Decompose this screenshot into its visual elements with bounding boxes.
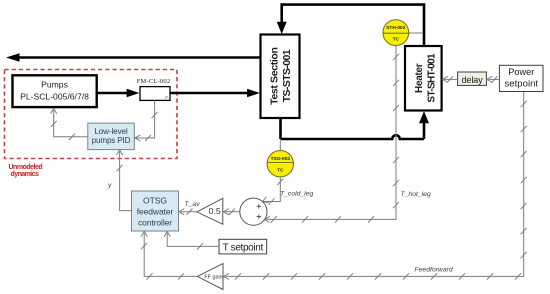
svg-text:Unmodeled: Unmodeled [9, 164, 43, 171]
svg-text:STH-002: STH-002 [386, 25, 406, 31]
svg-text:feedwater: feedwater [137, 206, 174, 216]
wire T_cold_leg from TSO-002 to summer [261, 177, 283, 205]
svg-text:T_hot_leg: T_hot_leg [401, 191, 431, 198]
pumps PL-SCL-005/6/7/8 [13, 75, 97, 107]
gain 0.5 [197, 198, 223, 224]
OTSG feedwater controller [132, 191, 179, 231]
wire power setpoint to delay [487, 76, 500, 82]
svg-text:FM-CL-002: FM-CL-002 [137, 78, 171, 85]
svg-text:pumps PID: pumps PID [92, 136, 131, 145]
wire T_av to OTSG controller [179, 209, 197, 215]
sensor TSO-002 TC [267, 140, 293, 177]
svg-text:y: y [107, 182, 112, 189]
power setpoint box [499, 65, 543, 91]
wire FF gain to OTSG [141, 231, 197, 279]
svg-text:T_av: T_av [185, 201, 201, 208]
gain FF gain [197, 264, 223, 290]
svg-text:dynamics: dynamics [11, 171, 40, 178]
wire flowmeter to test section [170, 89, 260, 98]
svg-text:Power: Power [508, 67, 534, 77]
svg-text:TSO-002: TSO-002 [271, 156, 291, 162]
svg-text:PL-SCL-005/6/7/8: PL-SCL-005/6/7/8 [20, 91, 89, 101]
wire y from OTSG to low-level PID [117, 150, 132, 211]
pipe: test section top loop from heater [277, 5, 424, 46]
unmodeled dynamics dashed boundary [5, 70, 178, 159]
wire T setpoint to OTSG [164, 231, 219, 249]
svg-text:TC: TC [393, 37, 400, 43]
wire flowmeter to PID [135, 100, 158, 141]
svg-text:TC: TC [277, 168, 284, 174]
svg-text:OTSG: OTSG [143, 195, 167, 205]
svg-text:ST-SHT-001: ST-SHT-001 [427, 53, 438, 103]
test section TS-STS-001 [261, 35, 300, 119]
svg-text:Heater: Heater [414, 63, 425, 93]
svg-text:T setpoint: T setpoint [223, 242, 264, 253]
svg-text:FF gain: FF gain [204, 275, 222, 281]
svg-text:delay: delay [462, 75, 484, 85]
wire summer to gain 0.5 [223, 209, 239, 215]
svg-text:Test Section: Test Section [269, 47, 281, 104]
wire pumps to flowmeter [97, 89, 140, 98]
flowmeter FM-CL-002 [137, 78, 171, 100]
wire T_hot_leg from STH-002 to summer [265, 46, 400, 223]
svg-text:controller: controller [138, 217, 172, 227]
heater ST-SHT-001 [405, 46, 442, 111]
wire PID to pumps [51, 108, 88, 140]
svg-text:F: F [165, 95, 168, 100]
svg-text:TS-STS-001: TS-STS-001 [281, 49, 293, 102]
svg-text:setpoint: setpoint [504, 79, 538, 90]
svg-text:Low-level: Low-level [94, 127, 128, 136]
summer node [240, 198, 267, 225]
delay box [458, 72, 487, 85]
T setpoint box [219, 239, 267, 254]
svg-text:Feedforward: Feedforward [415, 267, 453, 274]
wire: return line to left edge [6, 53, 261, 62]
low-level pumps PID [88, 123, 135, 150]
pipe: test section bottom to heater bottom [281, 111, 430, 139]
wire feedforward: power setpoint down and along bottom to FF gain [224, 92, 527, 280]
svg-text:Pumps: Pumps [41, 79, 68, 89]
svg-text:0.5: 0.5 [209, 206, 221, 216]
sensor STH-002 TC [383, 20, 423, 46]
wire delay to heater [442, 76, 457, 82]
svg-text:T_cold_leg: T_cold_leg [280, 190, 313, 197]
